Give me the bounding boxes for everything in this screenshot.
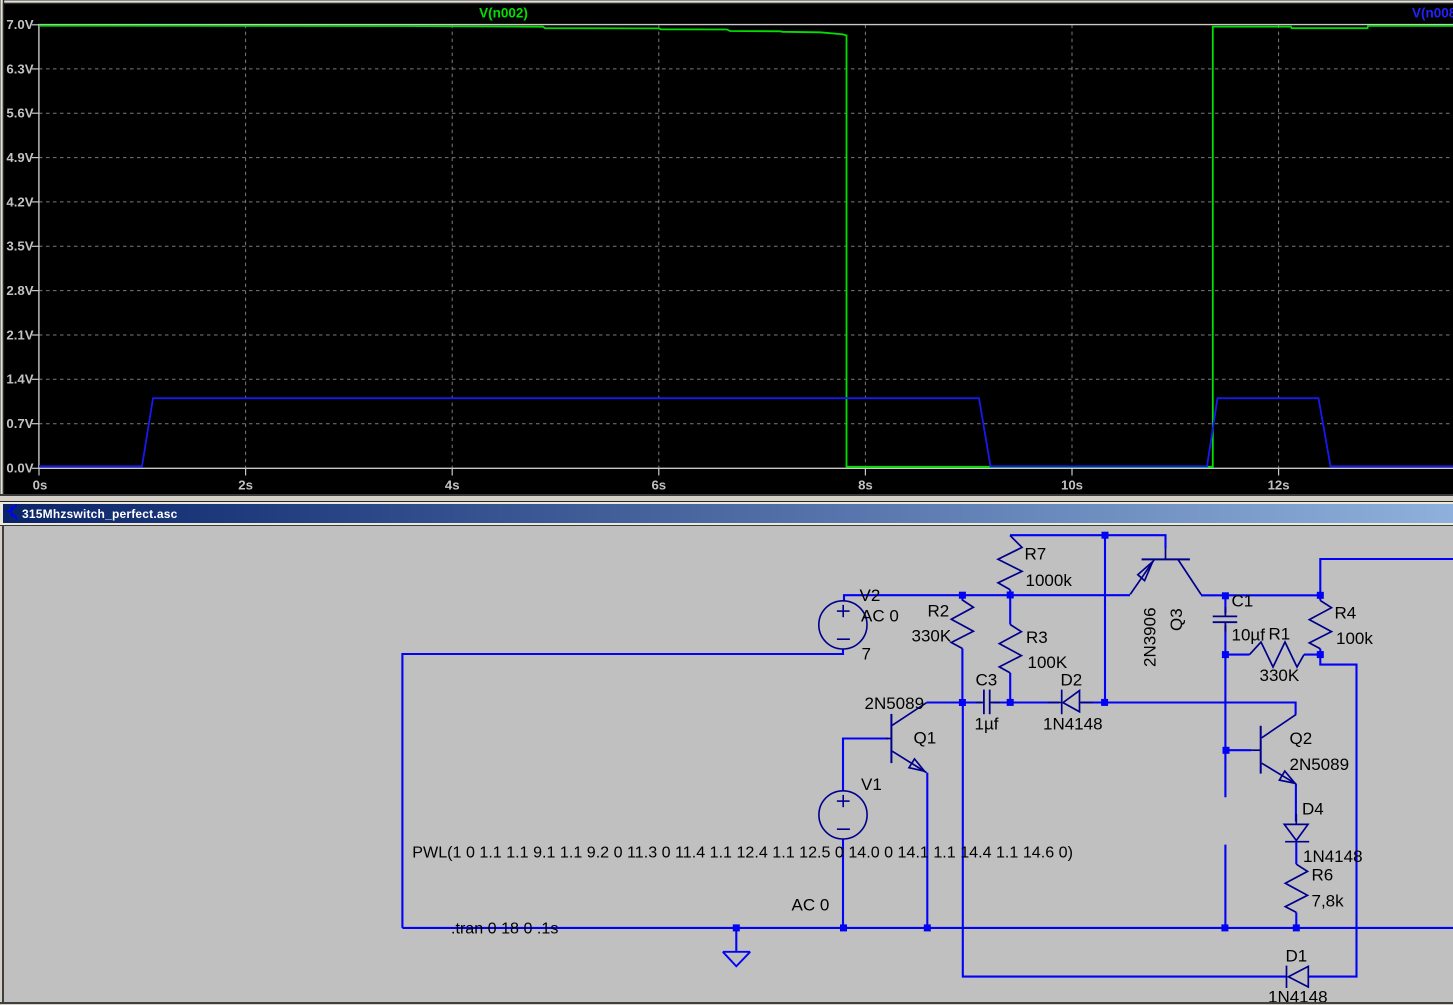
wire ground stem <box>735 928 737 951</box>
wire C1 top stub <box>1224 596 1226 613</box>
svg-text:1N4148: 1N4148 <box>1303 847 1363 866</box>
wire R2 top stub <box>961 595 963 600</box>
svg-text:3.5V: 3.5V <box>6 239 33 254</box>
voltage source V1 <box>792 775 882 915</box>
svg-text:2N5089: 2N5089 <box>1290 755 1350 774</box>
svg-text:R2: R2 <box>928 602 950 621</box>
svg-text:R3: R3 <box>1026 628 1048 647</box>
wire D1 cathode to Q1 collector net <box>963 703 1287 977</box>
wire grounded stub below gap <box>1224 845 1226 928</box>
svg-text:7: 7 <box>862 645 871 664</box>
svg-text:0.0V: 0.0V <box>6 461 33 476</box>
diode D4 <box>1284 800 1362 867</box>
wire D2 anode to Q2 collector <box>1081 703 1296 715</box>
svg-text:1µf: 1µf <box>975 715 999 734</box>
svg-text:10µf: 10µf <box>1232 626 1266 645</box>
svg-text:Q1: Q1 <box>914 729 937 748</box>
y labels <box>6 17 33 476</box>
svg-text:PWL(1 0 1.1 1.1 9.1 1.1 9.2 0: PWL(1 0 1.1 1.1 9.1 1.1 9.2 0 11.3 0 11.… <box>412 844 1073 862</box>
svg-text:2.1V: 2.1V <box>6 327 33 342</box>
junction nodes <box>733 532 1324 932</box>
wire Q1 collector / C3 left <box>927 701 982 703</box>
x labels <box>33 478 1290 493</box>
capacitor C1 <box>1213 592 1266 645</box>
wire R2 bottom <box>961 649 963 703</box>
wire V2 plus rail <box>844 595 1130 601</box>
resistor R6 <box>1285 864 1344 912</box>
wire R3 top stub <box>1009 595 1011 625</box>
grid dashed <box>39 25 1453 469</box>
svg-text:V2: V2 <box>860 586 881 605</box>
svg-text:4.9V: 4.9V <box>6 150 33 165</box>
plot box border <box>38 25 1453 469</box>
wire C3 right to D2 cathode <box>993 701 1060 703</box>
svg-text:C3: C3 <box>976 671 998 690</box>
wire R1 right stub <box>1304 654 1320 656</box>
svg-text:2s: 2s <box>238 478 253 493</box>
svg-text:D1: D1 <box>1286 947 1308 966</box>
svg-text:D2: D2 <box>1061 671 1083 690</box>
svg-text:100k: 100k <box>1336 629 1373 648</box>
wire Q1 emitter to rail <box>926 773 928 928</box>
wire R6 bottom stub <box>1295 912 1297 928</box>
svg-text:V1: V1 <box>861 775 882 794</box>
resistor R7 <box>998 535 1072 590</box>
blue trace V(n008) <box>39 398 1453 466</box>
svg-text:330K: 330K <box>912 627 952 646</box>
titlebar icon: mini transistor <box>7 505 17 519</box>
wire R4 top to right edge <box>1320 559 1453 595</box>
wire Q3 collector to R4 top <box>1201 594 1320 596</box>
svg-text:D4: D4 <box>1302 800 1324 819</box>
svg-text:6.3V: 6.3V <box>6 61 33 76</box>
wire R7 bottom stub <box>1009 590 1011 595</box>
svg-text:R6: R6 <box>1312 866 1334 885</box>
svg-text:0s: 0s <box>33 478 48 493</box>
svg-text:R1: R1 <box>1269 625 1291 644</box>
wire top net R7-Q3base <box>1010 535 1166 548</box>
svg-text:C1: C1 <box>1232 592 1254 611</box>
wire V1 minus to rail <box>842 839 844 928</box>
svg-text:1.4V: 1.4V <box>6 372 33 387</box>
svg-text:10s: 10s <box>1061 478 1083 493</box>
diode D1 <box>1268 947 1328 1005</box>
svg-text:2.8V: 2.8V <box>6 283 33 298</box>
svg-text:Q2: Q2 <box>1290 729 1313 748</box>
svg-text:R7: R7 <box>1025 545 1047 564</box>
svg-text:8s: 8s <box>858 478 873 493</box>
svg-text:V(n002): V(n002) <box>479 6 528 21</box>
svg-text:100K: 100K <box>1028 653 1068 672</box>
svg-text:.tran 0 18 0 .1s: .tran 0 18 0 .1s <box>451 920 558 938</box>
svg-text:2N5089: 2N5089 <box>865 694 925 713</box>
wire vertical top-to-D2 node <box>1104 535 1106 702</box>
diode D2 <box>1043 671 1103 734</box>
svg-text:12s: 12s <box>1268 478 1290 493</box>
voltage source V2 <box>819 586 899 664</box>
svg-text:330K: 330K <box>1260 666 1300 685</box>
svg-text:AC 0: AC 0 <box>861 607 899 626</box>
svg-text:1N4148: 1N4148 <box>1268 988 1328 1003</box>
transistor Q3 <box>1130 549 1201 668</box>
green trace V(n002) <box>39 26 1453 467</box>
svg-text:2N3906: 2N3906 <box>1141 607 1160 667</box>
ground <box>723 952 750 967</box>
resistor R3 <box>999 625 1068 673</box>
svg-text:7.0V: 7.0V <box>6 17 33 32</box>
wire R4 bottom to D1 anode <box>1308 655 1356 977</box>
wire C1 bottom stub <box>1224 626 1226 655</box>
svg-text:0.7V: 0.7V <box>6 416 33 431</box>
resistor R4 <box>1309 601 1373 649</box>
transistor Q2 <box>1251 714 1349 783</box>
svg-text:R4: R4 <box>1335 604 1357 623</box>
capacitor C3 <box>975 671 1001 734</box>
svg-text:4.2V: 4.2V <box>6 194 33 209</box>
window frame top/left <box>0 0 1453 1</box>
wire V2 minus loop to ground rail <box>402 649 843 928</box>
wire R4 top stub <box>1319 595 1321 600</box>
svg-text:1000k: 1000k <box>1026 571 1073 590</box>
svg-text:AC 0: AC 0 <box>792 896 830 915</box>
wire R3 bottom stub <box>1009 673 1011 703</box>
svg-text:7,8k: 7,8k <box>1312 892 1345 911</box>
svg-text:Q3: Q3 <box>1167 608 1186 631</box>
wire R1 left stub <box>1225 654 1249 656</box>
wire Q2 base stub <box>1225 749 1251 751</box>
wire ground rail <box>402 927 1453 929</box>
wire Q2 emitter to D4 <box>1295 784 1297 822</box>
svg-text:1N4148: 1N4148 <box>1043 715 1103 734</box>
wire V1 plus to Q1 base <box>843 739 888 792</box>
wire R4 bottom stub <box>1319 649 1321 655</box>
resistor R2 <box>912 600 974 649</box>
axis ticks <box>32 25 1279 476</box>
wire C1 bottom to Q2 base (open end) <box>1224 655 1226 798</box>
svg-text:4s: 4s <box>445 478 460 493</box>
svg-text:5.6V: 5.6V <box>6 106 33 121</box>
svg-text:V(n008): V(n008) <box>1412 6 1453 21</box>
transistor Q1 <box>865 694 937 773</box>
wire D4 to R6 <box>1295 843 1297 865</box>
resistor R1 <box>1250 625 1305 686</box>
svg-text:6s: 6s <box>651 478 666 493</box>
